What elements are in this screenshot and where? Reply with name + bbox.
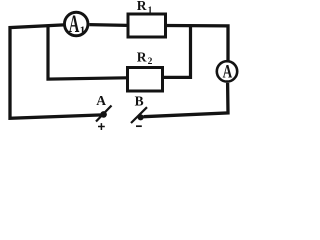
wire: R1 right to top-right corner down to ammeter A top — [167, 26, 228, 61]
terminal B (binding post with slash) — [131, 107, 147, 123]
svg-text:1: 1 — [80, 25, 86, 37]
wire: left loop from ammeter A1 left terminal down to terminal A — [10, 25, 103, 118]
svg-text:A: A — [69, 11, 80, 38]
label R1 — [137, 0, 153, 16]
svg-text:1: 1 — [148, 6, 153, 16]
plus sign — [98, 123, 105, 130]
wire: ammeter A1 to resistor R1 — [89, 23, 127, 27]
label R2 — [137, 49, 153, 67]
svg-text:R: R — [137, 0, 147, 13]
minus sign — [136, 125, 142, 127]
wire: ammeter A bottom to bottom-right corner to terminal B — [144, 83, 229, 117]
resistor R1 — [128, 14, 166, 37]
terminal A (binding post with slash) — [96, 106, 112, 122]
wire: top-wire junction down to resistor R2 left — [48, 26, 126, 80]
svg-text:R: R — [137, 49, 147, 64]
svg-text:B: B — [135, 94, 144, 109]
ammeter A — [217, 61, 237, 82]
svg-text:A: A — [96, 93, 106, 108]
resistor R2 — [128, 68, 163, 92]
ammeter A1 — [64, 11, 88, 38]
svg-text:A: A — [223, 62, 233, 83]
wire: resistor R2 right up to top wire junction — [164, 26, 191, 78]
svg-text:2: 2 — [148, 57, 153, 67]
